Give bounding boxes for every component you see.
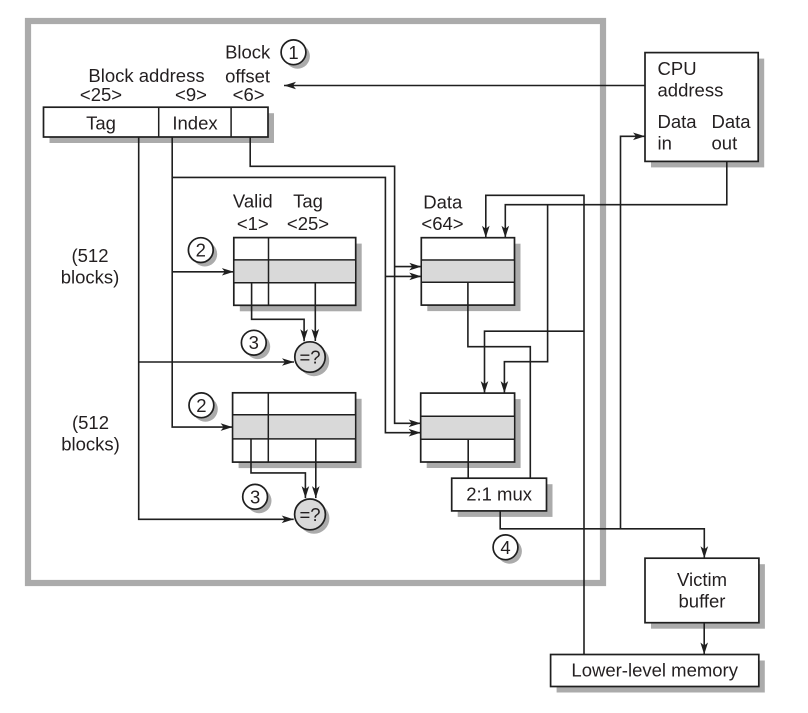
svg-text:(512: (512 [72, 412, 109, 433]
wire: way1 valid bit down into comparator [252, 283, 305, 341]
svg-text:2: 2 [196, 395, 206, 416]
svg-text:Block: Block [225, 41, 271, 62]
circled step 2 (way 2) [189, 393, 218, 422]
wire: index branch right, down, into way2 data array left edge [172, 177, 421, 432]
wire: victim buffer to lower-level memory [703, 623, 705, 655]
wire: index field drop line to way2 arrow [172, 137, 232, 427]
svg-text:3: 3 [250, 486, 260, 507]
svg-text:<25>: <25> [80, 84, 122, 105]
svg-text:Victim: Victim [677, 569, 727, 590]
way 2 tag array box [233, 393, 362, 468]
svg-text:address: address [658, 79, 724, 100]
CPU box [645, 53, 764, 168]
way 1 tag array box [234, 238, 362, 312]
svg-text:Data: Data [658, 111, 698, 132]
svg-text:Data: Data [423, 191, 463, 212]
svg-text:in: in [658, 132, 672, 153]
comparator =? (way 1) [295, 342, 329, 376]
svg-text:=?: =? [299, 504, 320, 525]
outer cache frame [28, 21, 603, 583]
wire: way1 stored tag down into comparator [314, 283, 316, 341]
lower-level memory box [551, 655, 765, 693]
svg-text:2:1 mux: 2:1 mux [466, 484, 533, 505]
circled step 4 [493, 535, 522, 564]
wire: lower-level memory vertical with branch into way1 data array top [486, 195, 584, 654]
svg-text:(512: (512 [71, 245, 108, 266]
wire: branch into way2 data array top (left input) [485, 331, 585, 393]
svg-text:<6>: <6> [233, 84, 265, 105]
svg-text:Block address: Block address [88, 65, 204, 86]
2:1 mux box [452, 478, 553, 517]
svg-text:<64>: <64> [421, 213, 463, 234]
svg-text:3: 3 [249, 332, 259, 353]
wire: store-data branch into way2 data array top (right input) [504, 205, 547, 393]
wire: CPU Data out down, left, into way1 data array top [505, 161, 727, 237]
svg-text:2: 2 [196, 240, 206, 261]
svg-text:<1>: <1> [237, 213, 269, 234]
wire: offset branch arrow into way1 data array left edge [395, 266, 422, 268]
circled step 2 (way 1) [188, 238, 217, 267]
wire: way2 data out into mux [467, 439, 469, 478]
svg-text:=?: =? [299, 347, 320, 368]
svg-text:4: 4 [500, 537, 510, 558]
wire: block offset drop, right, down into way2 data array left edge [250, 137, 421, 423]
wire: tag field drop line to lower comparator [139, 137, 294, 519]
circled step 1 [281, 40, 310, 69]
wire: CPU address to register (step 1 arrow) [284, 85, 645, 87]
svg-text:Data: Data [712, 111, 752, 132]
svg-text:Index: Index [172, 113, 218, 134]
wire: index arrow into way 1 tag array (step 2) [172, 271, 234, 273]
comparator =? (way 2) [295, 499, 330, 534]
svg-text:<9>: <9> [175, 84, 207, 105]
svg-text:1: 1 [288, 42, 298, 63]
svg-text:CPU: CPU [658, 58, 697, 79]
circled step 3 (way 1) [241, 330, 270, 359]
wire: way2 valid bit down into comparator [251, 439, 305, 498]
way 2 data array box [421, 393, 521, 468]
svg-text:out: out [712, 132, 738, 153]
wire: way2 stored tag down into comparator [315, 439, 317, 498]
svg-text:buffer: buffer [679, 590, 726, 611]
wire: mux/lower path up to CPU Data in [621, 136, 646, 529]
wire: way1 data out down, right, into mux [468, 282, 530, 478]
svg-text:<25>: <25> [287, 213, 329, 234]
wire: tag branch arrow into upper comparator [139, 361, 294, 363]
wire: mux output right to victim buffer (step 4) [500, 511, 704, 558]
victim buffer box [645, 558, 765, 629]
address register box (Tag | Index | offset) [44, 107, 275, 143]
svg-text:Valid: Valid [233, 190, 273, 211]
svg-text:Tag: Tag [293, 190, 323, 211]
way 1 data array box [421, 238, 520, 311]
wire: index/data branch arrow into way1 data array left edge [385, 275, 421, 277]
svg-text:blocks): blocks) [61, 266, 120, 287]
svg-text:blocks): blocks) [61, 434, 120, 455]
svg-text:Tag: Tag [86, 113, 116, 134]
svg-text:Lower-level memory: Lower-level memory [571, 660, 738, 681]
circled step 3 (way 2) [243, 484, 272, 513]
